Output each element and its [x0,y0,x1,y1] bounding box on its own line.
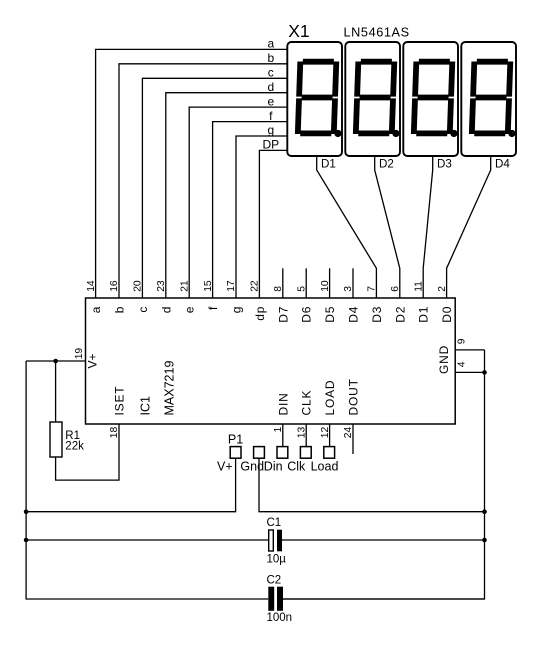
display digit 1 segments (8.) [298,62,344,138]
svg-text:LN5461AS: LN5461AS [344,26,410,40]
svg-text:20: 20 [133,280,144,292]
wire segment g: display to IC pin 17 [236,136,287,298]
wire GND pin 4 stub [455,371,484,373]
display digit 2 segments (8.) [356,62,402,138]
svg-text:b: b [113,306,127,313]
svg-text:5: 5 [296,286,307,292]
wire segment a: display to IC pin 14 [96,49,288,298]
wire C1 right rail [282,539,485,541]
svg-text:23: 23 [156,280,167,292]
display digit 3 segments (8.) [414,62,460,138]
svg-text:g: g [230,306,244,313]
capacitor C2 plate 1 [268,587,274,611]
wire LOAD pin to P1 Load [329,424,331,447]
display digit 4 segments (8.) [472,62,518,138]
wire GND rail from P1 Gnd [259,458,485,512]
svg-text:11: 11 [413,281,424,292]
wire V+ rail to P1 V+ [26,458,236,512]
svg-text:b: b [267,51,274,65]
wire segment e: display to IC pin 21 [189,107,287,298]
svg-text:DOUT: DOUT [347,378,361,415]
svg-text:X1: X1 [288,21,309,41]
junction node GND pins 9/4 [482,370,487,375]
junction node C1 left rail [24,538,29,543]
svg-text:e: e [267,94,274,108]
svg-text:7: 7 [367,286,378,292]
wire segment b: display to IC pin 16 [119,64,287,298]
wire CLK pin to P1 Clk [305,424,307,447]
resistor R1 [50,422,62,457]
n.c. stub IC pin 8 (D7) [282,268,284,298]
svg-text:C1: C1 [267,517,282,529]
svg-text:c: c [268,66,274,80]
svg-text:DP: DP [262,138,279,152]
svg-text:8: 8 [273,286,284,292]
svg-text:10µ: 10µ [267,553,287,565]
wire segment c: display to IC pin 20 [142,78,287,298]
connector P1 pad Din [277,447,288,459]
wire C1 left rail [26,539,269,541]
svg-text:D2: D2 [393,306,407,323]
svg-text:CLK: CLK [300,390,314,416]
wire V+ left vertical [26,361,268,599]
svg-text:3: 3 [343,286,354,292]
svg-text:D0: D0 [440,306,454,323]
junction node V+/R1 [53,359,58,364]
n.c. stub IC pin 3 (D4) [352,268,354,298]
svg-text:MAX7219: MAX7219 [163,361,177,416]
svg-text:4: 4 [456,361,467,367]
display digit 1 box [287,42,342,156]
svg-text:g: g [267,123,274,137]
junction node C1 right rail [482,538,487,543]
wire segment DP: display to IC pin 22 [259,150,287,298]
n.c. stub DOUT pin 24 [352,424,354,454]
wire V+ node to R1 top [55,361,57,422]
display digit 4 box [461,42,516,156]
svg-text:Gnd: Gnd [240,460,264,474]
display digit 2 box [345,42,400,156]
wire common D4: display to IC pin 2 [447,156,491,298]
svg-text:6: 6 [390,286,401,292]
svg-text:Load: Load [311,460,339,474]
wire V+ : IC pin 19 to left rail [26,360,85,362]
svg-text:D1: D1 [321,157,336,170]
svg-text:D5: D5 [323,306,337,323]
svg-text:Din: Din [264,460,283,474]
connector P1 pad V+ [230,447,241,459]
svg-text:V+: V+ [85,353,99,368]
n.c. stub IC pin 5 (D6) [305,268,307,298]
svg-text:d: d [159,306,173,313]
display digit 3 box [403,42,458,156]
op-amp/driver IC1 MAX7219 body [86,298,456,424]
svg-text:14: 14 [86,280,97,292]
svg-text:c: c [136,306,150,313]
svg-text:e: e [183,306,197,313]
wire C2 right rail [283,598,485,600]
svg-text:100n: 100n [267,612,293,624]
n.c. stub IC pin 10 (D5) [329,268,331,298]
wire segment f: display to IC pin 15 [213,122,288,298]
capacitor C2 plate 2 [277,587,283,611]
svg-text:a: a [267,37,274,51]
capacitor C1 minus plate [277,530,282,552]
svg-text:10: 10 [320,280,331,292]
svg-text:GND: GND [437,345,451,374]
svg-text:17: 17 [226,280,237,292]
junction node V+ rail [24,509,29,514]
svg-text:22k: 22k [65,441,84,453]
svg-text:DIN: DIN [276,392,290,415]
svg-text:D2: D2 [379,157,394,170]
svg-text:a: a [89,306,103,313]
svg-text:19: 19 [74,348,85,360]
connector P1 pad Gnd [254,447,265,459]
svg-text:V+: V+ [217,460,233,474]
svg-text:D1: D1 [417,306,431,323]
svg-text:2: 2 [437,286,448,292]
svg-text:D3: D3 [370,306,384,323]
svg-text:D4: D4 [495,157,510,170]
svg-text:LOAD: LOAD [323,380,337,416]
wire common D2: display to IC pin 6 [375,156,400,298]
wire GND pin 9 stub [455,349,484,351]
svg-text:Clk: Clk [287,460,306,474]
wire segment d: display to IC pin 23 [166,93,287,298]
svg-text:9: 9 [456,338,467,344]
svg-text:21: 21 [179,280,190,292]
connector P1 pad Clk [300,447,311,459]
svg-text:15: 15 [203,280,214,292]
svg-text:ISET: ISET [113,386,127,416]
svg-text:P1: P1 [228,433,243,447]
connector P1 pad Load [324,447,335,459]
svg-text:f: f [206,306,220,310]
svg-text:C2: C2 [267,574,282,586]
wire common D1: display to IC pin 7 [317,156,377,298]
wire DIN pin to P1 Din [282,424,284,447]
wire common D3: display to IC pin 11 [423,156,433,298]
svg-text:D3: D3 [437,157,452,170]
wire ISET pin stub to R1 [56,424,119,480]
svg-text:dp: dp [253,306,267,321]
svg-text:22: 22 [250,280,261,292]
svg-text:D4: D4 [347,306,361,323]
capacitor C1 plus plate [269,530,274,551]
svg-text:D7: D7 [276,306,290,323]
svg-text:IC1: IC1 [138,396,152,416]
svg-text:D6: D6 [300,306,314,323]
svg-text:16: 16 [109,280,120,292]
junction node GND rail [482,509,487,514]
svg-text:d: d [267,80,274,94]
wire GND right vertical [283,350,485,599]
